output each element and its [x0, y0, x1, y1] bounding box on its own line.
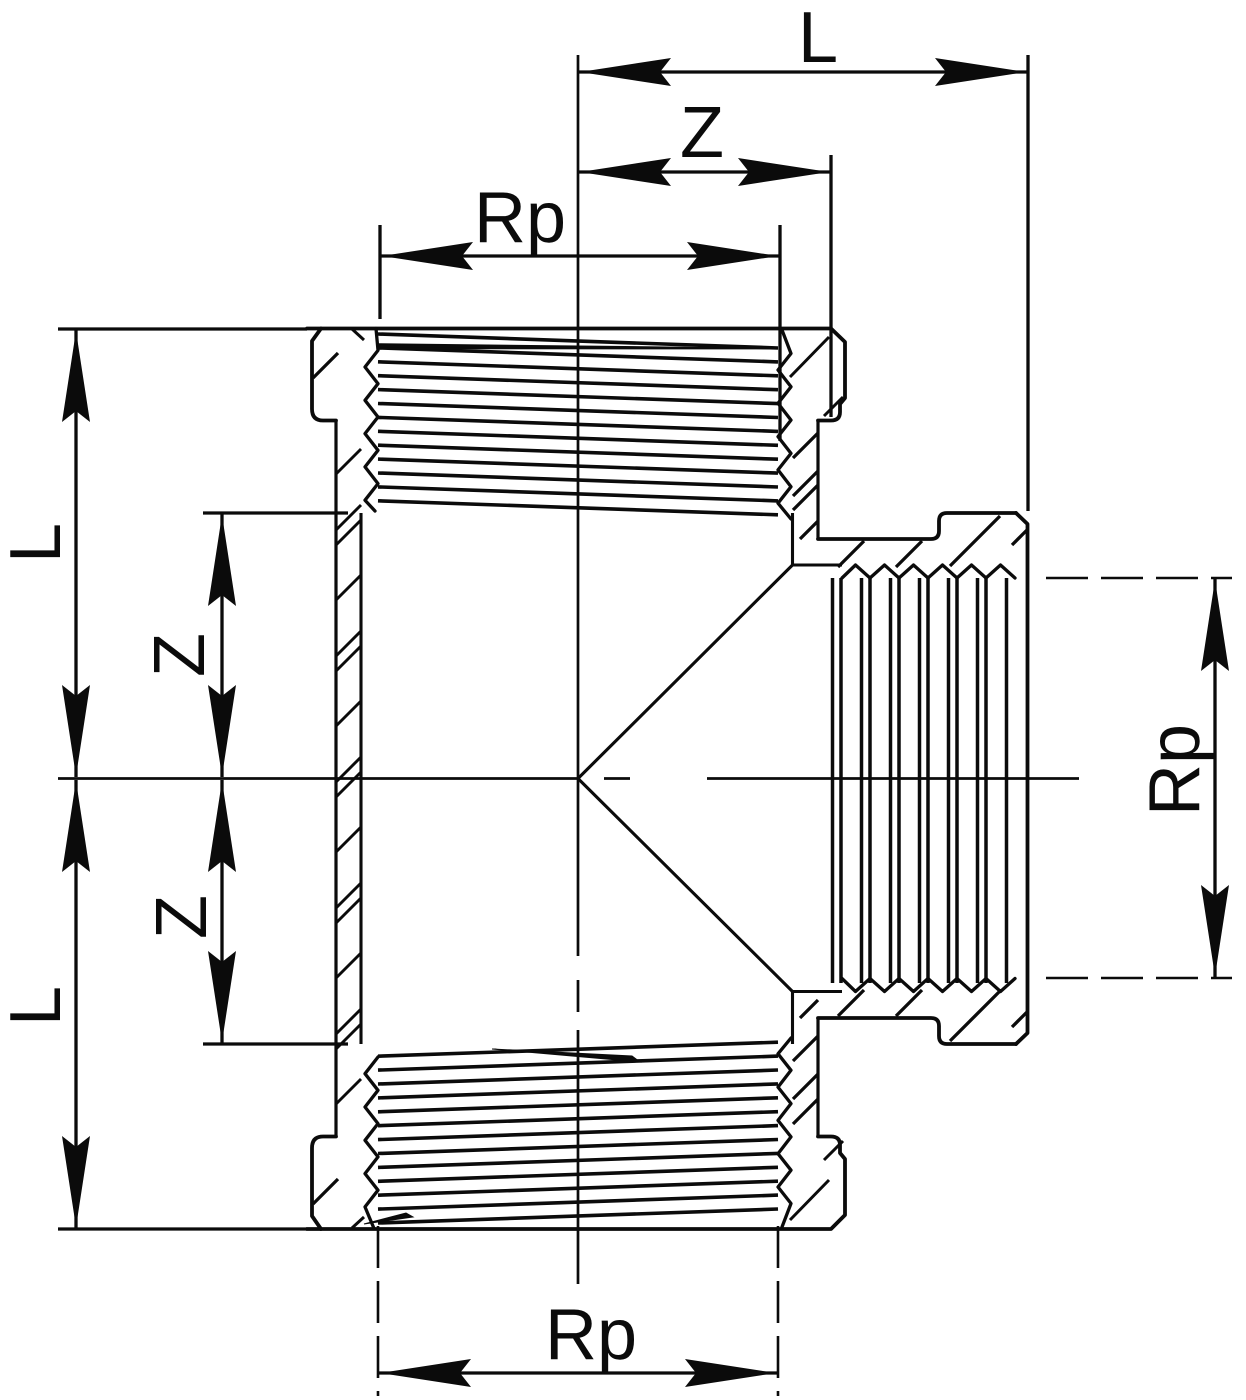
thread flank sawtooth, bottom port left side [365, 1057, 378, 1229]
thread crest lines, branch port [833, 578, 1007, 983]
top band (upper socket collar) [307, 329, 845, 421]
dimension Rp (bottom): right arrow [685, 1359, 776, 1387]
bore wall right upper stub [791, 513, 794, 565]
branch bore wall bottom [793, 990, 843, 993]
extension line, upper thread shoulder [203, 511, 348, 514]
hatching, left wall [336, 449, 361, 1104]
thread runout mark near bottom mouth [364, 1213, 413, 1224]
dimension Rp (top): left extension line [378, 225, 381, 319]
svg-text:Rp: Rp [545, 1295, 637, 1375]
thread flank sawtooth, top port right side [778, 330, 791, 519]
dimension Rp (bottom): left dashed extension line [377, 1226, 380, 1396]
dimension Z (top): left arrow [580, 158, 671, 186]
bottom band left edge with chamfer [312, 1137, 336, 1230]
extension line, bottom face [58, 1227, 307, 1230]
dimension L (top): right arrow [935, 58, 1026, 86]
dimension Rp (right): upper dashed extension line [1046, 577, 1232, 580]
svg-text:Rp: Rp [474, 178, 566, 258]
hatching, top band left piece [313, 353, 338, 378]
dimension Z (top): extension line at body wall [829, 155, 832, 417]
hatching, right wall above branch [793, 433, 818, 458]
dimension L (upper left): top arrow [62, 331, 90, 422]
top band left edge with chamfer [312, 329, 336, 421]
dimension Rp (right): top arrow [1201, 580, 1229, 671]
dimension L (top): left arrow [580, 58, 671, 86]
dimension L (upper left): bottom arrow [62, 685, 90, 776]
hatching, bottom band left piece [313, 1179, 338, 1204]
dimension Rp (top): right extension line [778, 225, 781, 441]
dimension L (top): dimension line [578, 70, 1028, 73]
svg-text:L: L [0, 523, 76, 563]
dimension Z (lower left): bottom arrow [208, 951, 236, 1042]
thread flank sawtooth, top port left side [365, 329, 378, 512]
dimension Z (top): dimension line [578, 170, 831, 173]
dimension L (lower left): top arrow [62, 781, 90, 872]
dimension Rp (bottom): left arrow [380, 1359, 471, 1387]
horizontal centerline [58, 777, 1079, 780]
bottom band (lower socket collar) [307, 1137, 845, 1230]
thread flank sawtooth, branch bottom side [842, 979, 1015, 992]
extension line, top face [58, 327, 307, 330]
thread runout wedge near top mouth [378, 344, 778, 349]
dimension Rp (right): bottom arrow [1201, 885, 1229, 976]
left wall of vertical body [334, 421, 337, 1137]
svg-text:Z: Z [140, 633, 220, 677]
dimension L (top, branch length): extension line at branch end [1026, 55, 1029, 511]
extension line, lower thread shoulder [203, 1042, 348, 1045]
dimension Rp (top): left arrow [382, 242, 473, 270]
right wall of vertical body (above branch) [816, 421, 819, 540]
dimension Rp (right): dimension line [1213, 578, 1216, 978]
dimension Z (upper left): bottom arrow [208, 685, 236, 776]
right wall of vertical body (below branch) [816, 1018, 819, 1137]
thread runout wedge near bottom shoulder [492, 1049, 640, 1062]
hatching, right wall below branch [793, 1074, 818, 1099]
dimension Z (lower left): top arrow [208, 781, 236, 872]
dimension Z (upper left): dimension line [220, 513, 223, 777]
svg-text:L: L [798, 0, 838, 78]
dimension Rp (bottom): right dashed extension line [777, 1226, 780, 1396]
hatching, branch band top piece [950, 516, 1000, 566]
branch outlet: end face with chamfers [1016, 513, 1028, 1044]
svg-text:Z: Z [142, 895, 222, 939]
hatching, branch neck bottom wall [838, 990, 864, 1016]
hatching, bottom band right piece [790, 1180, 829, 1220]
dimension Rp (bottom): dimension line [378, 1371, 778, 1374]
svg-text:Z: Z [680, 93, 724, 173]
dimension Z (upper left): top arrow [208, 515, 236, 606]
dimension Rp (right): lower dashed extension line [1046, 977, 1232, 980]
dimension Z (top): right arrow [738, 158, 829, 186]
thread flank sawtooth, bottom port right side [778, 1038, 791, 1227]
svg-text:L: L [0, 986, 76, 1026]
dimension Z (lower left): dimension line [220, 780, 223, 1044]
dimension L (upper left): dimension line [74, 329, 77, 777]
thread crest lines, top port [378, 334, 778, 515]
bore wall right lower stub [791, 992, 794, 1045]
branch outlet: neck top surface [818, 513, 1016, 539]
thread flank sawtooth, branch top side [842, 565, 1015, 578]
hatching, branch band bottom piece [950, 991, 1000, 1041]
svg-text:Rp: Rp [1135, 724, 1215, 816]
hatching, top band right piece [790, 337, 829, 377]
dimension Rp (top): dimension line [380, 254, 780, 257]
branch outlet: neck bottom surface [818, 1018, 1016, 1044]
dimension L (lower left): bottom arrow [62, 1136, 90, 1227]
thread crest lines, bottom port [378, 1042, 778, 1223]
dimension L (lower left): dimension line [74, 780, 77, 1229]
branch bore wall top [793, 563, 843, 566]
bore wall left [359, 513, 362, 1044]
hatching, branch neck top wall [838, 541, 864, 567]
vertical centerline [577, 55, 580, 1284]
dimension Rp (top): right arrow [687, 242, 778, 270]
drill cone of branch bore, apex at center [578, 565, 793, 992]
